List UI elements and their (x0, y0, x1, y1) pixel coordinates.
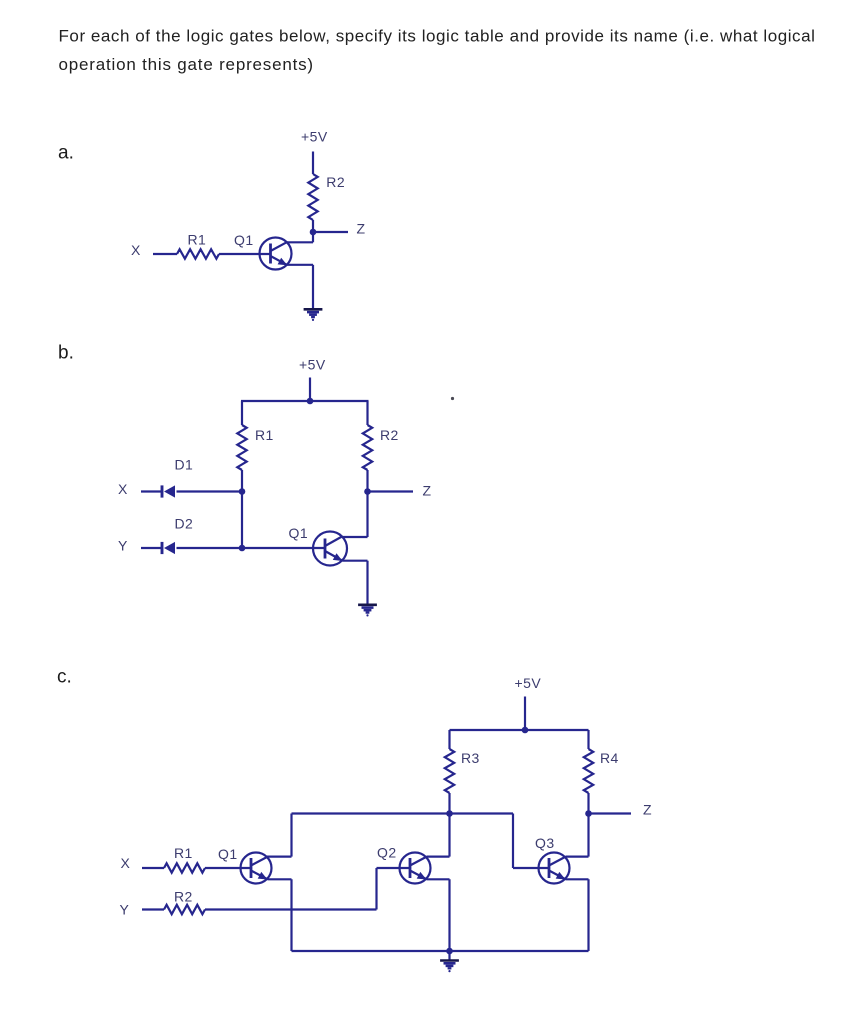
wire Q2 emitter down (c) (448, 879, 450, 951)
svg-text:operation this gate represents: operation this gate represents) (59, 55, 314, 74)
Q3 base wire (c) (513, 867, 550, 869)
wire R4 to node Z (c) (587, 793, 589, 814)
node Z junction (a) (310, 229, 317, 236)
resistor R2 (c) (164, 905, 205, 914)
transistor Q1 (a) (260, 238, 292, 270)
wire rail to R4 (c) (587, 730, 589, 749)
svg-text:c.: c. (57, 666, 72, 687)
label Q1 (b) (289, 525, 309, 541)
label D1 (b) (175, 457, 194, 473)
label R3 (c) (461, 750, 480, 766)
Q1 collector wire (c) (267, 855, 292, 857)
collector wire (a) (287, 241, 313, 243)
label R2 (b) (380, 427, 399, 443)
svg-text:Z: Z (423, 483, 432, 499)
label Y (c) (120, 902, 130, 918)
resistor R3 (c) (445, 749, 454, 793)
wire rail to R1 (b) (241, 401, 243, 425)
wire D1 to node X (b) (177, 490, 243, 492)
wire +5V feed (c) (524, 697, 526, 731)
label X (b) (118, 481, 128, 497)
svg-text:X: X (121, 855, 131, 871)
+5V supply label (a) (301, 129, 328, 145)
+5V supply label (b) (299, 357, 326, 373)
svg-text:D1: D1 (175, 457, 194, 473)
label b. (58, 343, 74, 364)
label Q1 (c) (218, 846, 238, 862)
wire rail to R3 (c) (448, 730, 450, 749)
wire Y lead (c) (142, 908, 164, 910)
label Z (a) (357, 221, 366, 237)
label a. (58, 142, 74, 163)
transistor Q2 (c) (400, 853, 431, 884)
top rail (b) (241, 400, 369, 402)
svg-text:R1: R1 (255, 427, 274, 443)
node A junction (c) (446, 810, 453, 817)
svg-text:b.: b. (58, 343, 74, 364)
wire +5V feed (b) (309, 378, 311, 402)
label R4 (c) (600, 750, 619, 766)
svg-text:D2: D2 (175, 516, 194, 532)
transistor Q1 (c) (241, 853, 272, 884)
Q2 base wire (c) (377, 867, 411, 869)
label Z (b) (423, 483, 432, 499)
svg-text:Z: Z (643, 802, 652, 818)
wire node X to node Y (b) (241, 492, 243, 549)
svg-text:Y: Y (118, 538, 128, 554)
svg-text:Q3: Q3 (535, 835, 555, 851)
wire R1 to node X (b) (241, 470, 243, 492)
diode D2 (b) (162, 542, 175, 554)
top rail (c) (450, 729, 589, 731)
Q2 collector wire (c) (427, 855, 450, 857)
node X junction (b) (239, 488, 246, 495)
wire node A left arm (c) (292, 812, 450, 814)
svg-text:R2: R2 (380, 427, 399, 443)
Q3 emitter wire (c) (566, 878, 589, 880)
wire node down to collector (a) (312, 232, 314, 242)
+5V supply label (c) (515, 675, 542, 691)
ground rail (c) (292, 950, 589, 952)
svg-text:Q2: Q2 (377, 845, 397, 861)
diode D1 (b) (162, 485, 175, 497)
wire X lead (b) (141, 490, 162, 492)
emitter wire (b) (343, 560, 368, 562)
label Q2 (c) (377, 845, 397, 861)
wire X to R1 (a) (153, 253, 177, 255)
svg-text:R2: R2 (174, 889, 193, 905)
label R1 (b) (255, 427, 274, 443)
svg-text:R1: R1 (174, 845, 193, 861)
resistor R1 (a) (177, 249, 219, 258)
wire down to Q3 base (c) (512, 814, 514, 869)
wire Y lead (b) (141, 547, 162, 549)
collector wire (b) (342, 536, 368, 538)
Q2 emitter wire (c) (427, 878, 450, 880)
wire +5V to R2 (a) (312, 152, 314, 175)
label c. (57, 666, 72, 687)
label Y (b) (118, 538, 128, 554)
wire node A right arm (c) (450, 812, 514, 814)
junction +5V rail (c) (522, 727, 529, 734)
svg-text:R1: R1 (188, 232, 207, 248)
label R2 (a) (326, 174, 345, 190)
resistor R4 (c) (584, 749, 593, 793)
svg-text:X: X (118, 481, 128, 497)
wire node to Z terminal (a) (313, 231, 348, 233)
emitter wire (a) (287, 264, 313, 266)
resistor R2 (b) (363, 425, 372, 470)
svg-text:+5V: +5V (515, 675, 542, 691)
svg-text:a.: a. (58, 142, 74, 163)
wire D2 to base (b) (177, 547, 326, 549)
wire rail to R2 (b) (366, 401, 368, 425)
wire node Z to Z terminal (b) (368, 490, 414, 492)
wire Q1 emitter down (c) (290, 879, 292, 951)
stray period mark (451, 397, 454, 400)
svg-text:Z: Z (357, 221, 366, 237)
svg-text:R3: R3 (461, 750, 480, 766)
wire emitter to ground (a) (312, 265, 314, 309)
node Z junction (b) (364, 488, 371, 495)
wire Q3 collector up (c) (587, 814, 589, 857)
label D2 (b) (175, 516, 194, 532)
wire R3 to node A (c) (448, 793, 450, 814)
wire emitter to ground (b) (366, 561, 368, 604)
ground junction (c) (446, 948, 453, 955)
node Y junction (b) (239, 545, 246, 552)
Q3 collector wire (c) (566, 855, 589, 857)
svg-text:Q1: Q1 (289, 525, 309, 541)
wire riser to Q2 base (c) (375, 868, 377, 910)
wire node Z to Z terminal (c) (589, 812, 632, 814)
ground (a) (304, 309, 323, 321)
wire R2 to node Z (a) (312, 220, 314, 232)
resistor R2 (a) (308, 174, 317, 220)
title line 1 (59, 26, 816, 45)
label Q3 (c) (535, 835, 555, 851)
label X (c) (121, 855, 131, 871)
wire down to Q1 collector (c) (290, 814, 292, 857)
svg-text:For each of the logic gates be: For each of the logic gates below, speci… (59, 26, 816, 45)
svg-text:Q1: Q1 (218, 846, 238, 862)
label Z (c) (643, 802, 652, 818)
svg-text:X: X (131, 242, 141, 258)
resistor R1 (b) (237, 425, 246, 470)
wire node A down to Q2 collector (c) (448, 814, 450, 857)
wire R1 to base (a) (219, 253, 271, 255)
svg-text:R2: R2 (326, 174, 345, 190)
wire R2 to riser (c) (205, 908, 377, 910)
ground (c) (440, 961, 459, 973)
label R2 (c) (174, 889, 193, 905)
transistor Q3 (c) (539, 853, 570, 884)
ground (b) (358, 605, 377, 617)
label Q1 (a) (234, 232, 254, 248)
label X (a) (131, 242, 141, 258)
wire X lead (c) (142, 867, 164, 869)
svg-text:Q1: Q1 (234, 232, 254, 248)
label R1 (a) (188, 232, 207, 248)
junction +5V rail (b) (307, 398, 314, 405)
node Z junction (c) (585, 810, 592, 817)
svg-text:+5V: +5V (301, 129, 328, 145)
svg-text:Y: Y (120, 902, 130, 918)
wire R2 to node Z (b) (366, 470, 368, 492)
ground stem (c) (448, 951, 450, 960)
label R1 (c) (174, 845, 193, 861)
svg-text:R4: R4 (600, 750, 619, 766)
title line 2 (59, 55, 314, 74)
wire node Z down to collector (b) (366, 492, 368, 538)
transistor Q1 (b) (313, 532, 347, 566)
wire R1 to Q1 base (c) (205, 867, 252, 869)
svg-text:+5V: +5V (299, 357, 326, 373)
resistor R1 (c) (164, 863, 205, 872)
Q1 emitter wire (c) (268, 878, 292, 880)
wire Q3 emitter down (c) (587, 879, 589, 951)
